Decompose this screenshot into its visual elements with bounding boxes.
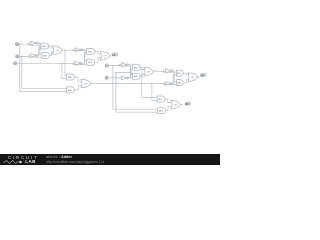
- wire a2 tap down to AND F2: [113, 66, 158, 110]
- wire U14 out to OR U15: [140, 74, 144, 76]
- svg-text:AND: AND: [134, 66, 139, 69]
- OR gate U15: [144, 67, 154, 76]
- svg-text:AND: AND: [42, 45, 47, 48]
- wire U13 out to OR U15: [140, 67, 144, 69]
- svg-text:c2: c2: [185, 102, 189, 106]
- svg-text:OR: OR: [147, 72, 151, 74]
- AND gate U19: [177, 80, 184, 86]
- wire sum2: OR U15 out to inverter U16 and AND U18: [154, 71, 177, 72]
- wire a to inverter U1 and AND U3: [19, 43, 41, 45]
- circuitlab logo text CIRCUIT: [8, 155, 38, 160]
- wire b tap down to AND C2: [22, 56, 67, 88]
- wire U12 out to AND U13: [129, 69, 133, 78]
- AND gate U18: [176, 70, 183, 76]
- input pin a: [16, 43, 19, 46]
- AND gate U14: [133, 73, 141, 79]
- OR gate C3: [81, 79, 91, 88]
- wire OR U20 out to s2 flag: [198, 76, 200, 78]
- svg-text:OR: OR: [56, 50, 60, 52]
- wire U3 out to OR U5: [49, 46, 54, 48]
- wire b2 to inverter U12 and AND U14: [108, 73, 132, 78]
- wire carry1: OR C3 out to second adder (long run): [91, 84, 177, 85]
- AND gate U4: [42, 53, 50, 59]
- inverter U17: [166, 82, 173, 86]
- svg-text:AND: AND: [134, 75, 139, 78]
- node c2 label (carry out): [185, 102, 191, 106]
- wire U7 out to AND U8: [82, 53, 87, 63]
- wire sum2 tap down to AND F1: [142, 70, 157, 98]
- footer bar: [0, 154, 220, 165]
- svg-text:AND: AND: [68, 89, 73, 92]
- svg-text:AND: AND: [88, 61, 93, 64]
- inverter U16: [166, 69, 173, 73]
- node s2 label: [200, 73, 206, 77]
- wire OR F3 out to c2 flag: [181, 104, 183, 106]
- OR gate U20: [188, 73, 198, 82]
- input pin a2: [105, 64, 108, 67]
- wire sum1: OR U5 out to inverter U6 and AND U8: [62, 49, 86, 52]
- input pin b2: [105, 76, 108, 79]
- wire a tap down to AND C2: [20, 44, 67, 91]
- svg-text:AND: AND: [88, 50, 93, 53]
- wire U2 out to AND U3: [38, 47, 41, 55]
- wire c tap down to AND C1: [62, 63, 67, 78]
- AND gate C1: [67, 74, 75, 80]
- inverter U11: [122, 63, 129, 67]
- wire U4 out to OR U5: [50, 52, 54, 55]
- AND gate U9: [87, 59, 95, 65]
- svg-text:AND: AND: [177, 82, 182, 85]
- wire sum1 tap down to AND C1: [65, 50, 67, 75]
- footer line 2: url: [46, 160, 104, 164]
- wire U9 out to OR U10: [95, 58, 102, 62]
- inverter U1: [31, 41, 38, 45]
- svg-text:AND: AND: [68, 76, 73, 79]
- OR gate F3: [171, 100, 181, 109]
- AND gate U8: [87, 48, 95, 54]
- AND gate F1: [157, 96, 165, 102]
- wire U17 out to AND U18: [173, 74, 177, 83]
- wire b to inverter U2 and AND U4: [19, 56, 42, 58]
- wire U19 out to OR U20: [184, 79, 188, 82]
- inverter U2: [31, 54, 38, 58]
- junction dots: [19, 44, 164, 85]
- svg-text:AND: AND: [159, 110, 164, 113]
- svg-text:AND: AND: [177, 72, 182, 75]
- inverter U6: [75, 48, 82, 52]
- wire c to inverter U7 and AND U9: [17, 63, 87, 64]
- wire a2 to inverter U11 and AND U13: [109, 65, 133, 67]
- wire F1 out to OR F3: [165, 99, 172, 103]
- svg-text:OR: OR: [103, 56, 107, 58]
- OR gate U10: [100, 52, 110, 61]
- AND gate U13: [132, 64, 140, 70]
- circuitlab logo waveform: [3, 159, 27, 165]
- wire U18 out to OR U20: [183, 73, 188, 75]
- svg-text:s2: s2: [200, 73, 204, 77]
- wire C1 out to OR C3: [75, 77, 82, 81]
- inverter U7: [75, 61, 82, 65]
- svg-text:AND: AND: [43, 55, 48, 58]
- inverter U12: [122, 76, 129, 80]
- wire U6 out to AND U9: [82, 50, 87, 61]
- circuitlab logo text LAB: [25, 159, 35, 164]
- wire U16 out to AND U19: [173, 71, 177, 82]
- input pin b: [16, 55, 19, 58]
- svg-text:AND: AND: [158, 98, 163, 101]
- AND gate F2: [158, 108, 166, 114]
- input pin c (carry in): [14, 62, 17, 65]
- wire OR U10 out to s1 flag: [110, 55, 112, 57]
- svg-text:OR: OR: [191, 77, 195, 79]
- AND gate C2: [67, 87, 75, 93]
- wire C2 out to OR C3: [75, 86, 82, 90]
- wire U11 out to AND U14: [129, 65, 133, 78]
- svg-text:OR: OR: [174, 105, 178, 107]
- footer line 1: author / title: [46, 155, 72, 159]
- svg-text:OR: OR: [84, 83, 88, 85]
- wire U8 out to OR U10: [95, 51, 102, 53]
- wire F2 out to OR F3: [166, 107, 172, 111]
- wire carry1 tap down to AND F1: [152, 84, 157, 101]
- svg-text:s1: s1: [112, 53, 116, 57]
- node s1 label: [112, 53, 118, 57]
- wire U1 out to AND U4: [38, 43, 42, 54]
- OR gate U5: [53, 46, 63, 55]
- wire b2 tap down to AND F2: [116, 73, 158, 113]
- AND gate U3: [41, 43, 49, 49]
